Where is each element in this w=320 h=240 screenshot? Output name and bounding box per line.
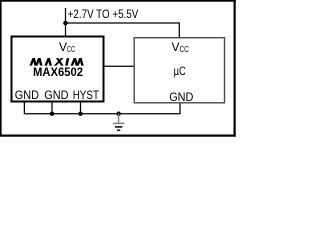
svg-text:GND: GND — [15, 88, 39, 102]
svg-text:MAX6502: MAX6502 — [33, 65, 83, 79]
svg-text:V: V — [172, 40, 180, 54]
svg-text:µC: µC — [174, 64, 186, 78]
svg-text:+2.7V TO +5.5V: +2.7V TO +5.5V — [68, 7, 139, 21]
svg-text:V: V — [59, 40, 67, 54]
svg-text:CC: CC — [180, 45, 189, 54]
svg-text:GND: GND — [44, 88, 68, 102]
svg-text:GND: GND — [169, 90, 193, 104]
svg-text:CC: CC — [67, 45, 75, 54]
svg-text:HYST: HYST — [73, 88, 100, 102]
